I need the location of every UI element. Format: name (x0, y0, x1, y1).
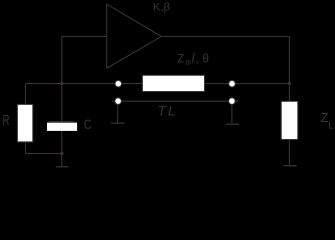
wire: resistor R bottom lead (25, 142, 27, 153)
node: TL port circle bottom-right (229, 98, 236, 105)
wire: node A horizontal rail (top conductor) (26, 83, 290, 85)
ground: bottom left ground stem (61, 154, 63, 167)
transmission line TL body (142, 75, 204, 91)
ground: load ZL ground bar (283, 165, 296, 167)
svg-text:K,β: K,β (153, 1, 171, 13)
junction: node A dot (60, 82, 63, 85)
ground: right TL ground bar (226, 123, 239, 125)
wire: load ZL bottom lead (288, 139, 290, 165)
junction: bottom ground node dot (60, 152, 63, 155)
svg-text:C: C (84, 116, 92, 132)
ground: left TL ground stem (117, 104, 119, 123)
wire: amplifier input lead from node A (62, 37, 107, 84)
wire: TL bottom conductor (112, 100, 238, 102)
ground: right TL ground stem (231, 104, 233, 124)
wire: bottom left rail R to C junction (26, 153, 62, 155)
node: TL port circle bottom-left (115, 98, 122, 105)
resistor R body (17, 104, 32, 141)
wire: resistor R top lead (25, 84, 27, 105)
wire: capacitor C top lead (61, 84, 63, 122)
svg-text:Z0,l,θ: Z0,l,θ (177, 52, 209, 67)
junction: output node dot (288, 82, 291, 85)
wire: amplifier output to right vertical feed (161, 37, 289, 102)
op-amp U1 amplifier triangle K (107, 4, 162, 68)
ground: left TL ground bar (111, 122, 125, 124)
wire: capacitor C bottom lead (61, 131, 63, 154)
node: TL port circle top-left (115, 80, 122, 87)
ground: bottom left ground bar (56, 166, 69, 168)
capacitor C bottom plate (white) (47, 123, 77, 131)
node: TL port circle top-right (229, 80, 236, 87)
svg-text:R: R (3, 113, 10, 129)
load impedance ZL body (281, 101, 298, 139)
capacitor C top plate (49, 120, 74, 122)
